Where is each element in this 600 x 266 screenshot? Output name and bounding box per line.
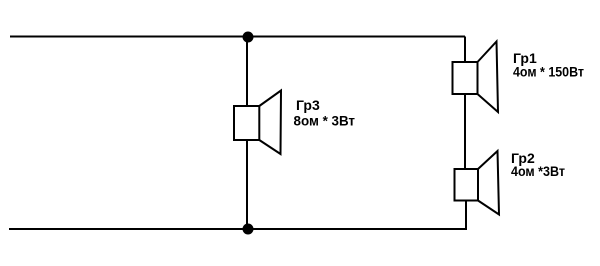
svg-text:4ом *3Вт: 4ом *3Вт — [511, 163, 565, 179]
svg-text:4ом * 150Вт: 4ом * 150Вт — [513, 64, 584, 80]
svg-text:8ом * 3Вт: 8ом * 3Вт — [294, 113, 356, 129]
svg-text:Гр3: Гр3 — [296, 97, 320, 113]
